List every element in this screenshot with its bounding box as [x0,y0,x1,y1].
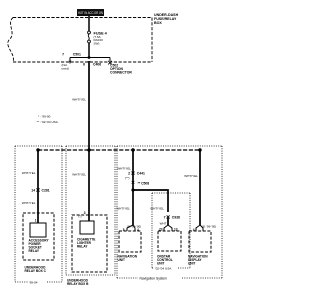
underhood relay box B dashed outline [72,215,107,272]
outer dotted box '99-04 (left group) [15,146,62,282]
svg-text:WHT: WHT [160,222,167,226]
svg-text:C938: C938 [172,215,180,219]
wire to accessory power socket relay [37,150,39,223]
accessory power socket relay [29,219,50,254]
connector C501 pin 7 (not used) [62,52,82,70]
under-dash fuse/relay box dashed outline [8,18,152,63]
power feed label HOT IN ACC OR ON [77,9,104,16]
wire to navigation unit [132,150,134,225]
svg-text:'99-04: '99-04 [29,281,38,285]
svg-text:* : '99-00: * : '99-00 [38,115,51,119]
junction node at navigation display branch [198,148,201,151]
svg-text:C281: C281 [42,189,50,193]
label UNDER-DASH FUSE/RELAY BOX [154,13,179,25]
wire to navigation display unit [199,150,201,225]
svg-text:WHT/YEL: WHT/YEL [22,171,36,175]
junction node at cigarette relay branch [87,148,90,151]
svg-text:HOT IN ACC OR ON: HOT IN ACC OR ON [78,11,103,15]
wire C938 to onstar unit [167,218,169,225]
svg-text:RELAY BOX B: RELAY BOX B [67,282,89,286]
fuse F4 FUSE 4 (7.5A RADIO SW) [88,31,108,45]
wire to cigarette lighter relay [88,150,90,221]
inner dotted box '02-'04 USA (onstar) [152,193,190,268]
svg-text:6: 6 [83,63,85,67]
navigation system outer dotted box [117,146,222,278]
junction at fuse bus [88,56,91,59]
wire fuse 4 down to bus [88,43,90,58]
junction node at navigation branch [131,148,134,151]
junction node nav branch split [131,188,134,191]
navigation display unit dashed box [189,231,211,252]
svg-text:used): used) [62,67,70,71]
svg-text:WHT/YEL: WHT/YEL [184,174,198,178]
distribution bus wire (dashed) [38,149,200,151]
connector C281 pin 14 [31,188,50,192]
svg-text:WHT/YEL: WHT/YEL [150,207,164,211]
svg-text:WHT/YEL: WHT/YEL [117,167,131,171]
wire WHT/YEL main feed down [88,62,90,150]
junction node at accessory relay branch [36,148,39,151]
svg-text:RELAY: RELAY [77,245,88,249]
svg-text:1: 1 [35,219,37,223]
onstar control unit dashed box [158,231,181,251]
svg-text:Navigation System: Navigation System [140,277,168,281]
svg-text:BOX: BOX [154,21,162,25]
svg-text:(**): (**) [125,176,129,180]
underhood relay box C dashed outline [23,213,54,260]
svg-text:14: 14 [31,189,35,193]
svg-text:** C508: ** C508 [138,182,150,186]
branch wire to onstar control unit [133,190,168,212]
svg-text:** : '02-'04 USA: ** : '02-'04 USA [37,120,59,124]
svg-text:RELAY: RELAY [29,249,40,253]
outer dotted box (middle group) [66,146,115,275]
svg-text:UNIT: UNIT [188,262,195,266]
connector C406 pin 6 [83,61,101,67]
cigarette lighter relay [77,221,95,249]
connector C502 option connector (not connected) [108,58,132,75]
svg-text:UNIT: UNIT [157,262,164,266]
connector C441 pin 2 [125,172,145,180]
svg-text:7: 7 [62,52,64,56]
connector C508 (** variant) [132,181,150,186]
svg-text:3: 3 [84,211,86,215]
svg-text:RELAY BOX C: RELAY BOX C [25,269,47,273]
svg-text:7: 7 [164,215,166,219]
navigation unit dashed box [119,231,141,252]
svg-text:(8: '99-'00): (8: '99-'00) [202,225,216,229]
footnote legend [37,115,59,124]
svg-text:WHT/YEL: WHT/YEL [22,201,36,205]
svg-text:SW): SW) [94,41,100,45]
connector C938 pin 7 [164,215,180,219]
svg-text:WHT/YEL: WHT/YEL [116,207,130,211]
svg-text:'02-'04 USA: '02-'04 USA [155,267,172,271]
svg-text:WHT/YEL: WHT/YEL [72,98,86,102]
fork into onstar pins 23 / 13 [159,225,178,232]
svg-text:UNIT: UNIT [118,258,125,262]
svg-text:CONNECTOR: CONNECTOR [110,71,132,75]
svg-text:WHT/YEL: WHT/YEL [72,173,86,177]
bus wire inside fuse box [70,57,110,59]
svg-text:C406: C406 [93,63,101,67]
svg-text:C501: C501 [73,52,81,56]
fork into navigation unit pins 8 / 4 [123,225,141,233]
svg-text:C441: C441 [137,172,145,176]
wire from power label to fuse 4 [88,16,90,31]
fork into navigation display unit pin 4 [193,225,216,233]
